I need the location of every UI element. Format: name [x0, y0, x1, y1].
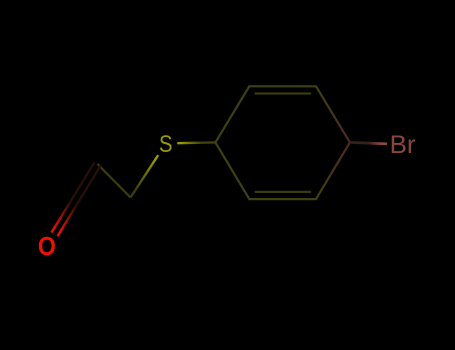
svg-text:O: O — [38, 233, 56, 261]
bond S to ring — [177, 141, 215, 144]
inner aromatic line bottom — [256, 191, 311, 193]
svg-text:S: S — [159, 131, 173, 158]
bond CH2 to carbonyl C — [98, 164, 131, 198]
benzene ring C6H4 — [215, 86, 350, 199]
inner aromatic line top — [256, 92, 311, 94]
ring bond TL-TR (top) — [249, 85, 316, 87]
bond S to CH2 — [131, 155, 159, 197]
ring bond BR-BL (bottom) — [249, 198, 316, 200]
svg-text:Br: Br — [390, 131, 416, 159]
carbonyl C=O double bond — [52, 162, 101, 236]
ring bond BL-L — [215, 142, 249, 199]
ring bond R-BR — [316, 142, 350, 199]
ring bond L-TL — [215, 86, 249, 142]
bond C to Br — [350, 142, 387, 144]
ring bond TR-R — [316, 86, 350, 142]
